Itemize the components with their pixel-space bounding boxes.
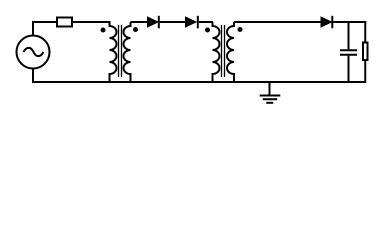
wire T1 to D1 — [131, 21, 149, 23]
diode D2 — [186, 16, 198, 28]
resistor R1 — [57, 18, 72, 27]
capacitor C1 bottom lead — [348, 56, 350, 83]
wire V1 top to R1 — [33, 22, 57, 36]
wire V1 bottom lead — [32, 68, 34, 83]
transformer T1 primary winding — [110, 22, 117, 82]
resistor R2 top lead — [364, 21, 366, 42]
transformer T1 secondary winding — [124, 22, 131, 82]
T2 primary polarity dot — [205, 28, 210, 33]
transformer T2 core — [222, 25, 225, 77]
diode D1 — [148, 16, 159, 28]
wire T2 to D3 — [234, 21, 322, 23]
ac source V1 — [17, 36, 50, 69]
resistor R2 — [363, 43, 368, 61]
capacitor C1 — [340, 50, 357, 55]
wire joint blob on T2-D3 wire — [258, 21, 262, 22]
wire D1 to D2 — [160, 21, 186, 23]
bottom wire / return rail — [33, 81, 365, 83]
transformer T2 primary winding — [213, 22, 220, 82]
T1 primary polarity dot — [101, 28, 106, 33]
resistor R2 bottom lead — [364, 61, 366, 83]
transformer T1 core — [119, 25, 122, 77]
capacitor C1 top lead — [348, 21, 350, 49]
T1 secondary polarity dot — [133, 27, 138, 32]
ground — [260, 82, 281, 103]
wire R1 to T1 — [72, 21, 111, 23]
wire D3 to output node — [333, 21, 366, 23]
T2 secondary polarity dot — [238, 27, 243, 32]
wire D2 to T2 — [199, 21, 213, 23]
transformer T2 secondary winding — [227, 22, 234, 82]
diode D3 — [321, 16, 332, 28]
